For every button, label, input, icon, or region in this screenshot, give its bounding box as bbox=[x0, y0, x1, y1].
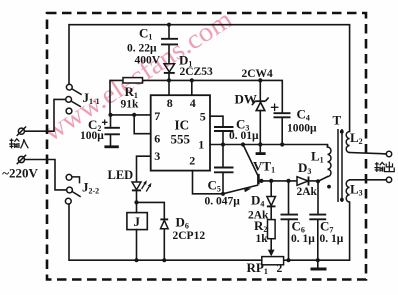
arrow RP1 wiper bbox=[268, 250, 275, 257]
diode D3 bbox=[297, 177, 309, 186]
wire bottom rail bbox=[69, 204, 262, 260]
svg-text:6: 6 bbox=[154, 132, 160, 146]
polarity dot L3 bbox=[340, 198, 344, 202]
wire collector bbox=[243, 145, 258, 177]
wire pin4 drop bbox=[191, 80, 193, 95]
wire L1 bottom slant bbox=[318, 177, 328, 182]
svg-text:~220V: ~220V bbox=[2, 165, 38, 180]
wire C1 column bbox=[168, 25, 170, 38]
junction pin2 C5 emitter bbox=[221, 192, 225, 196]
junction base node bbox=[259, 179, 263, 183]
wire rail2 bbox=[110, 80, 123, 115]
polarity dot L2 bbox=[340, 130, 344, 134]
wire L3 out bbox=[350, 179, 387, 181]
wire pin7 bbox=[110, 114, 151, 116]
switch J2-2 bbox=[65, 174, 80, 204]
label shuru (input) bbox=[9, 139, 28, 149]
wire pin1 node bbox=[210, 145, 328, 148]
terminal output 2 bbox=[386, 177, 391, 182]
wire C5 column bbox=[222, 145, 224, 167]
wire pin8 drop bbox=[168, 80, 170, 95]
svg-text:1000μ: 1000μ bbox=[287, 123, 317, 135]
diode D6 flyback bbox=[160, 219, 168, 228]
svg-text:DW: DW bbox=[235, 92, 257, 107]
svg-text:400V: 400V bbox=[135, 55, 161, 67]
resistor R1 bbox=[123, 78, 143, 83]
inductor L3 secondary bbox=[346, 180, 349, 202]
svg-text:IC: IC bbox=[175, 118, 190, 133]
plus C2 bbox=[102, 120, 108, 126]
junction pin4 rail bbox=[190, 78, 194, 82]
svg-text:2Ak: 2Ak bbox=[297, 186, 318, 198]
wire emitter bbox=[223, 185, 258, 194]
svg-text:2: 2 bbox=[277, 263, 283, 275]
capacitor C3 bbox=[214, 127, 234, 131]
wire C2 column bbox=[110, 115, 112, 127]
terminal input 2 bbox=[17, 155, 26, 164]
wire J bottom bbox=[136, 230, 138, 261]
transformer core T bbox=[338, 129, 342, 202]
wire input T1 bbox=[25, 99, 66, 131]
wire pin5 to C3 bbox=[210, 116, 223, 126]
wire D6 branch bbox=[137, 202, 165, 219]
junction DW rail bbox=[258, 78, 262, 82]
inductor L1 primary bbox=[328, 145, 332, 177]
terminal output 1 bbox=[386, 151, 391, 156]
wire R2 to RP1 arrow bbox=[270, 239, 272, 251]
svg-text:5: 5 bbox=[200, 110, 206, 124]
LED bbox=[132, 182, 141, 190]
switch J1-1 bbox=[66, 84, 82, 114]
junction C2 pin7 bbox=[108, 113, 112, 117]
svg-text:2CP12: 2CP12 bbox=[173, 230, 206, 242]
wire pin2 bbox=[193, 171, 224, 194]
svg-text:2CW4: 2CW4 bbox=[242, 68, 274, 80]
svg-text:100μ: 100μ bbox=[80, 130, 104, 142]
junction C3 C5 node bbox=[221, 142, 225, 146]
ground DW bbox=[256, 152, 266, 155]
wire D4 column bbox=[270, 181, 272, 196]
capacitor C4 bbox=[274, 113, 291, 117]
svg-text:1: 1 bbox=[198, 138, 204, 152]
diode D4 bbox=[267, 197, 276, 207]
zener DW bbox=[252, 98, 269, 111]
svg-text:2: 2 bbox=[189, 154, 195, 168]
label shuchu (output) bbox=[374, 162, 394, 172]
emitter arrowhead VT1 bbox=[244, 188, 251, 193]
junction pin6 pin7 bbox=[132, 113, 136, 117]
wire C3 to node wire bbox=[222, 132, 224, 145]
potentiometer RP1 bbox=[262, 257, 284, 265]
svg-text:J: J bbox=[134, 214, 141, 229]
svg-text:1k: 1k bbox=[256, 233, 269, 245]
svg-text:0. 22μ: 0. 22μ bbox=[127, 42, 157, 54]
wire L2 out bbox=[350, 153, 387, 154]
capacitor C7 bbox=[309, 215, 326, 220]
wire C7 column bbox=[317, 181, 319, 214]
IC U1 555 box bbox=[151, 95, 210, 170]
junction C1 top rail bbox=[167, 23, 171, 27]
junction collector node bbox=[241, 142, 245, 146]
wire output node bbox=[259, 180, 297, 182]
svg-text:T: T bbox=[333, 112, 342, 127]
junction C6 bottom rail bbox=[286, 258, 290, 262]
junction C4 node bbox=[280, 142, 284, 146]
diode D1 bbox=[164, 64, 175, 73]
wire top rail bbox=[69, 25, 350, 132]
svg-text:7: 7 bbox=[154, 109, 160, 123]
wire C6 column bbox=[288, 181, 290, 214]
capacitor C5 bbox=[214, 168, 234, 173]
relay box J bbox=[127, 213, 147, 230]
inductor L2 secondary bbox=[346, 132, 349, 153]
svg-text:91k: 91k bbox=[121, 99, 140, 111]
svg-text:4: 4 bbox=[190, 96, 196, 110]
junction C6 top node bbox=[286, 179, 290, 183]
svg-text:3: 3 bbox=[154, 149, 160, 163]
svg-text:0. 01μ: 0. 01μ bbox=[229, 130, 259, 142]
junction D1 cathode rail bbox=[167, 78, 171, 82]
wire LED to J bbox=[136, 191, 138, 213]
ground C7 bbox=[311, 268, 327, 271]
junction C7 ground rail bbox=[316, 258, 320, 262]
wire DW column bbox=[259, 80, 261, 100]
junction D6 bottom rail bbox=[162, 258, 166, 262]
svg-text:0. 1μ: 0. 1μ bbox=[291, 233, 315, 245]
transistor Q1 VT1 bar bbox=[257, 174, 260, 185]
svg-text:8: 8 bbox=[167, 96, 173, 110]
wire pin6 bbox=[134, 115, 151, 134]
enclosure dashed border bbox=[47, 13, 366, 280]
terminal input 1 bbox=[17, 127, 26, 136]
junction LED J D6 bbox=[134, 200, 138, 204]
ground C2 bbox=[104, 145, 118, 148]
junction DW ground node bbox=[258, 142, 262, 146]
plus C4 bbox=[271, 104, 279, 112]
junction D4 node bbox=[269, 179, 273, 183]
junction J bottom rail bbox=[134, 258, 138, 262]
LED arrows bbox=[142, 180, 152, 191]
svg-text:2CZ53: 2CZ53 bbox=[180, 66, 213, 78]
svg-text:0. 047μ: 0. 047μ bbox=[205, 196, 241, 208]
polarity dot L1 bbox=[327, 185, 331, 189]
ground stub DW bbox=[259, 145, 261, 153]
capacitor C6 bbox=[281, 215, 299, 220]
wire pin3 to LED bbox=[137, 156, 151, 181]
wire C4 bottom bbox=[281, 118, 283, 145]
ground stub C7 bbox=[317, 260, 319, 267]
svg-text:0. 1μ: 0. 1μ bbox=[320, 233, 344, 245]
watermark www.elecfans.com bbox=[38, 4, 237, 147]
junction L1 C7 node bbox=[316, 179, 320, 183]
capacitor C1 bbox=[161, 39, 178, 45]
resistor R2 bbox=[268, 220, 276, 239]
wire input T2 bbox=[25, 160, 67, 190]
svg-text:LED: LED bbox=[108, 168, 134, 182]
svg-text:555: 555 bbox=[171, 132, 191, 147]
capacitor C2 bbox=[104, 128, 120, 135]
